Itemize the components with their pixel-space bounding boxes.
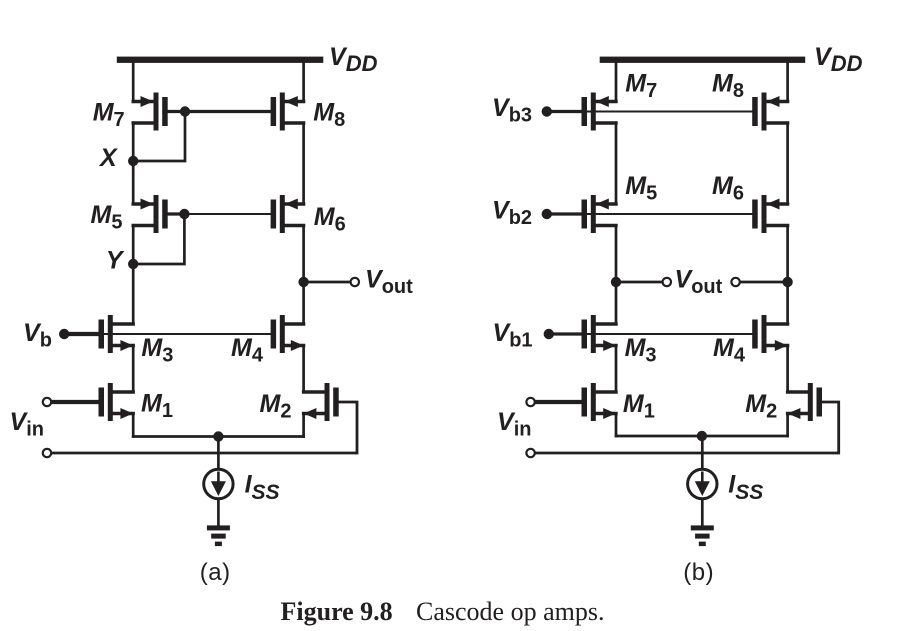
svg-text:M7: M7 — [93, 98, 125, 130]
svg-text:M4: M4 — [713, 334, 746, 367]
node Y — [128, 259, 138, 269]
terminal Vout (a) — [351, 278, 359, 286]
svg-text:Vin: Vin — [497, 408, 531, 441]
svg-text:M7: M7 — [625, 70, 657, 103]
label M2 (b) — [745, 390, 777, 423]
wire Vin+ lead (a) — [51, 400, 98, 404]
wire Vin- line (a) — [51, 452, 357, 455]
wire left column (b) — [615, 60, 618, 436]
label M1 — [141, 390, 173, 423]
svg-text:Cascode op amps.: Cascode op amps. — [416, 597, 604, 626]
label M2 — [260, 390, 292, 423]
label Vb — [23, 319, 52, 352]
label M1 (b) — [623, 390, 655, 423]
label ISS (b) — [728, 471, 763, 505]
net label VDD (a) — [329, 43, 378, 76]
wire Vout right stub (b) — [740, 281, 788, 284]
label M7 — [93, 98, 125, 130]
svg-text:Vb2: Vb2 — [492, 197, 532, 230]
label Vin (a) — [10, 408, 44, 441]
transistor M4 — [271, 315, 304, 353]
wire M5 gate lead — [165, 212, 184, 215]
wire Vout left stub (b) — [616, 281, 662, 284]
svg-text:M3: M3 — [625, 334, 657, 367]
wire right column (b) — [786, 60, 789, 436]
wire Vb line to M4 gate — [99, 333, 275, 335]
wire M7-M8 gate line — [185, 110, 273, 113]
wire right column (a) — [302, 60, 305, 437]
label Y — [106, 246, 125, 274]
wire left column (a) — [132, 60, 135, 437]
wire M2 gate lead (b) — [819, 402, 838, 453]
wire M5-M6 gate line — [184, 213, 273, 215]
node X — [128, 156, 138, 166]
label Vout (b) — [675, 266, 723, 299]
svg-text:Vb3: Vb3 — [492, 94, 532, 127]
net label VDD (b) — [814, 43, 863, 76]
label Vin (b) — [497, 408, 531, 441]
node tail (b) — [697, 431, 707, 441]
label M3 (b) — [625, 334, 657, 367]
wire M5 diode connection to Y — [133, 214, 184, 264]
wire Vb3 line to M8 gate — [582, 111, 755, 113]
svg-text:M3: M3 — [141, 334, 173, 367]
wire Vb2 line to M6 gate — [582, 213, 755, 215]
transistor M1 (b) — [582, 383, 617, 421]
svg-text:M2: M2 — [260, 390, 292, 423]
svg-text:M5: M5 — [91, 201, 123, 234]
wire Vb2 to M5 gate — [547, 212, 582, 215]
transistor M8 — [271, 93, 304, 131]
svg-text:VDD: VDD — [814, 43, 863, 76]
terminal Vin- (a) — [43, 449, 51, 457]
VDD power rail (a) — [117, 57, 323, 63]
svg-text:M6: M6 — [712, 172, 744, 205]
svg-text:M6: M6 — [314, 203, 346, 236]
label ISS (a) — [245, 471, 280, 505]
label (a) — [200, 559, 231, 586]
svg-text:Vout: Vout — [365, 266, 413, 299]
terminal Vout left (b) — [663, 278, 671, 286]
label M5 — [91, 201, 123, 234]
label (b) — [683, 559, 714, 586]
svg-text:M5: M5 — [625, 172, 657, 205]
caption Figure 9.8 — [281, 597, 393, 626]
svg-text:ISS: ISS — [728, 471, 763, 505]
transistor M5 (b) — [582, 195, 617, 233]
label Vb3 — [492, 94, 532, 127]
node Vb2 — [542, 209, 552, 219]
wire Vb to M3 gate — [64, 332, 99, 336]
VDD power rail (b) — [600, 57, 806, 63]
wire tail to ISS (b) — [701, 436, 704, 469]
terminal Vin+ (a) — [43, 398, 51, 406]
label Vout (a) — [365, 266, 413, 299]
label M6 — [314, 203, 346, 236]
wire M2 gate lead — [336, 402, 357, 453]
label M3 — [141, 334, 173, 367]
label M8 (b) — [712, 70, 744, 103]
svg-text:(a): (a) — [200, 559, 231, 586]
svg-text:(b): (b) — [683, 559, 714, 586]
transistor M6 — [271, 195, 304, 233]
svg-text:M8: M8 — [712, 70, 744, 103]
transistor M7 — [133, 93, 168, 131]
wire Vb1 line to M4 gate — [582, 333, 756, 335]
wire Vout stub (a) — [304, 281, 351, 284]
svg-text:M1: M1 — [141, 390, 173, 423]
wire ISS to ground (b) — [701, 499, 704, 526]
transistor M8 (b) — [752, 93, 787, 131]
svg-text:Figure 9.8: Figure 9.8 — [281, 597, 393, 626]
current source ISS (a) — [204, 469, 233, 498]
terminal Vout right (b) — [731, 278, 739, 286]
node Vb1 — [544, 329, 554, 339]
label M8 — [313, 98, 345, 130]
wire Vb1 to M3 gate — [549, 332, 582, 335]
svg-text:Y: Y — [106, 246, 125, 274]
transistor M7 (b) — [582, 93, 617, 131]
label M5 (b) — [625, 172, 657, 205]
caption text — [416, 597, 604, 626]
wire tail line (b) — [616, 435, 788, 438]
svg-text:M1: M1 — [623, 390, 655, 423]
ground (a) — [207, 525, 230, 546]
transistor M2 (b) — [788, 383, 822, 421]
transistor M4 (b) — [752, 315, 787, 353]
svg-text:Vb: Vb — [23, 319, 52, 352]
svg-text:M2: M2 — [745, 390, 777, 423]
label Vb1 — [493, 319, 533, 352]
wire Vin- line (b) — [535, 452, 839, 455]
svg-text:Vb1: Vb1 — [493, 319, 533, 352]
wire ISS to ground (a) — [217, 499, 220, 526]
transistor M1 — [99, 383, 134, 421]
label M4 — [231, 334, 264, 367]
node M5 gate junction — [179, 209, 189, 219]
svg-text:Vin: Vin — [10, 408, 44, 441]
wire M7 gate lead — [165, 110, 185, 113]
node Vb — [59, 329, 69, 339]
svg-text:ISS: ISS — [245, 471, 280, 505]
label M4 (b) — [713, 334, 746, 367]
node Vb3 — [542, 106, 552, 116]
label X — [98, 144, 118, 172]
label Vb2 — [492, 197, 532, 230]
wire tail to ISS (a) — [217, 437, 220, 470]
node Vout left (b) — [611, 277, 621, 287]
svg-text:M8: M8 — [313, 98, 345, 130]
wire Vb3 to M7 gate — [547, 110, 582, 113]
node tail (a) — [213, 431, 223, 441]
transistor M5 — [133, 195, 168, 233]
wire Vin+ lead (b) — [535, 400, 582, 404]
svg-text:VDD: VDD — [329, 43, 378, 76]
transistor M3 (b) — [582, 315, 617, 353]
node M7 gate junction — [180, 106, 190, 116]
transistor M6 (b) — [752, 195, 787, 233]
label M7 (b) — [625, 70, 657, 103]
transistor M2 — [304, 383, 339, 421]
terminal Vin+ (b) — [526, 398, 534, 406]
transistor M3 — [99, 315, 134, 353]
wire M7 diode connection to X — [133, 112, 185, 162]
current source ISS (b) — [688, 469, 717, 498]
node Vout (a) — [298, 277, 308, 287]
svg-text:X: X — [98, 144, 118, 172]
node Vout right (b) — [782, 277, 792, 287]
ground (b) — [691, 525, 714, 546]
terminal Vin- (b) — [526, 449, 534, 457]
svg-text:M4: M4 — [231, 334, 264, 367]
label M6 (b) — [712, 172, 744, 205]
svg-text:Vout: Vout — [675, 266, 723, 299]
wire tail line (a) — [133, 435, 303, 438]
